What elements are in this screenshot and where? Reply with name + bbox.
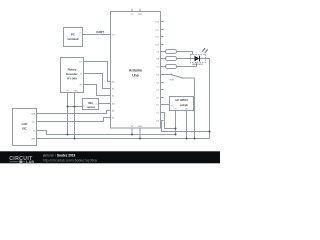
svg-text:LCD: LCD <box>22 122 28 126</box>
wire Arduino D0 to LED return <box>161 121 210 132</box>
svg-text:5V: 5V <box>83 106 85 108</box>
svg-text:HC SR501: HC SR501 <box>175 98 188 102</box>
svg-text:PC: PC <box>71 33 75 37</box>
wire HC-SR501 OUT to Arduino D2 <box>161 104 170 106</box>
wire encoder DT to Arduino A1 <box>84 74 111 89</box>
wire resistor R3 row <box>161 63 197 67</box>
resistor R2 <box>166 57 177 61</box>
svg-text:RGB LED1: RGB LED1 <box>192 64 204 66</box>
svg-text:LAB: LAB <box>26 160 34 164</box>
svg-text:Vibr.: Vibr. <box>88 101 94 105</box>
wire switch row and return <box>161 75 195 139</box>
wire sensor supply horizontal <box>68 106 83 108</box>
svg-text:sensor: sensor <box>87 105 96 109</box>
wire LCD SDA to Arduino A4 <box>37 111 111 114</box>
svg-text:jantursn / Soutez 2019: jantursn / Soutez 2019 <box>42 154 76 158</box>
Arduino left pin stubs <box>108 35 111 118</box>
wire UART PC-terminal to Arduino RX <box>83 34 111 36</box>
Arduino right pin stubs <box>161 22 164 121</box>
switch SW1 <box>170 74 183 82</box>
svg-text:Uno: Uno <box>132 74 139 78</box>
wire encoder GND down to rail <box>74 93 76 139</box>
wire 5V rail <box>47 134 176 136</box>
svg-text:SW: SW <box>79 84 82 86</box>
svg-text:terminal: terminal <box>68 37 79 41</box>
resistor R1 <box>166 50 177 54</box>
module rotary encoder KY-040 <box>61 58 84 93</box>
module HC-SR501 motion sensor <box>170 97 194 111</box>
svg-text:GND: GND <box>138 126 143 128</box>
svg-text:Rotary: Rotary <box>68 68 77 72</box>
wire Arduino D1 to HC-SR501 supply column <box>161 113 176 129</box>
wire LCD VCC to 5V rail <box>37 131 47 135</box>
wire Arduino GND bottom pin to rail <box>139 128 141 139</box>
svg-text:Arduino: Arduino <box>129 69 142 73</box>
svg-text:GND: GND <box>73 90 78 92</box>
wire LCD SCL to Arduino A5 <box>37 118 111 122</box>
wire HC-SR501 GND pin down <box>186 111 188 139</box>
module vibration sensor <box>83 99 99 110</box>
svg-text:pohyb: pohyb <box>180 103 188 107</box>
module LCD I2C <box>13 109 37 146</box>
svg-text:KY-040: KY-040 <box>67 77 77 81</box>
svg-text:http://circuitlab.com/c6odee7a: http://circuitlab.com/c6odee7ap3bqv <box>43 159 98 163</box>
wire resistor R2 row <box>161 58 191 60</box>
wire Arduino top pin stubs <box>132 9 140 12</box>
svg-text:UART: UART <box>96 30 104 34</box>
wire encoder CLK to Arduino A0 <box>84 62 111 82</box>
svg-text:GND: GND <box>138 14 143 16</box>
LED D1 RGB module <box>191 48 208 66</box>
wire GND rail <box>39 138 210 140</box>
wire encoder 5V down to rail <box>67 93 69 135</box>
resistor R3 <box>166 65 177 69</box>
watermark bar <box>0 151 220 164</box>
wire Arduino 5V bottom pin to rail <box>131 128 133 135</box>
wire LED output down right side <box>200 59 210 139</box>
svg-text:SW1: SW1 <box>170 79 176 81</box>
svg-text:GND: GND <box>31 138 36 140</box>
module PC terminal <box>64 28 83 47</box>
wire encoder SW to Arduino A2 <box>84 85 111 96</box>
wire resistor R1 row <box>161 52 193 55</box>
svg-text:Encoder: Encoder <box>66 72 78 76</box>
wire LCD GND to GND rail <box>37 138 39 140</box>
junction dots <box>67 106 211 140</box>
svg-text:SCL: SCL <box>32 121 36 123</box>
svg-text:I2C: I2C <box>22 126 26 130</box>
module U1 Arduino Uno <box>111 12 161 129</box>
wire sensor OUT to Arduino A3 <box>99 103 111 105</box>
wire HC-SR501 5V pin down <box>175 111 177 135</box>
